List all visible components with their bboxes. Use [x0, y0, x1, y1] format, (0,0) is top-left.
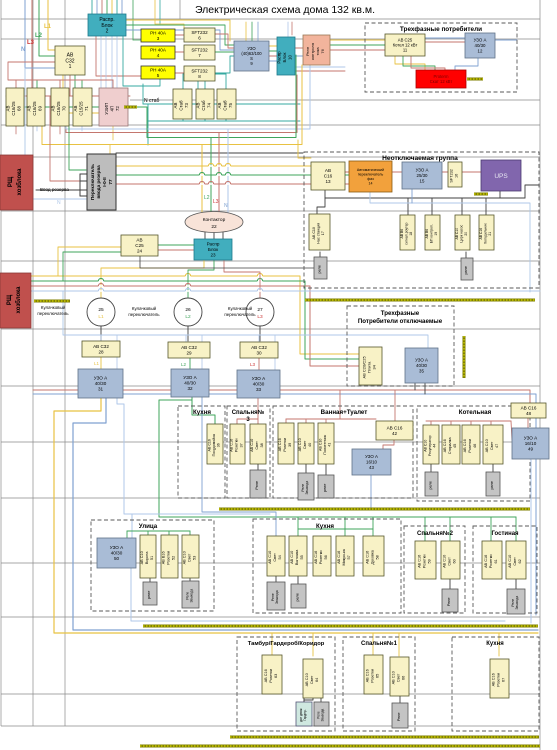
svg-text:УЗО А: УЗО А [416, 168, 429, 173]
breaker АВ С16 Посудомойка 36 [207, 424, 223, 464]
wire row stub down 4 [112, 126, 114, 140]
svg-text:Свет: Свет [273, 553, 277, 562]
wire row stub down 1 [36, 126, 38, 131]
svg-text:L3: L3 [257, 314, 263, 320]
svg-text:Кухня: Кухня [316, 523, 334, 530]
svg-text:АВ: АВ [217, 103, 222, 109]
svg-text:2: 2 [106, 29, 109, 35]
svg-text:РЩ: РЩ [7, 294, 13, 305]
svg-text:60: 60 [452, 559, 456, 563]
svg-text:55: 55 [300, 555, 304, 559]
svg-text:Розетки: Розетки [319, 551, 323, 565]
wire hop D2-8 [225, 183, 230, 185]
svg-text:Звыхода: Звыхода [190, 589, 194, 603]
PE bar near N стаб [124, 106, 137, 109]
svg-text:Звыхода: Звыхода [515, 596, 519, 610]
wire Распр23 down b [188, 260, 214, 281]
wire N feed [25, 0, 55, 68]
wire upper feeder #1 [251, 22, 253, 41]
svg-text:АВ С16: АВ С16 [207, 439, 211, 451]
svg-text:Полотенчик: Полотенчик [323, 435, 327, 455]
svg-text:Ворота: Ворота [145, 551, 149, 564]
wire 14 lightblue out [370, 192, 530, 292]
wire band2 green drop 1 [344, 517, 346, 536]
wire contactor-Распр23 2 [222, 232, 224, 239]
room box Спальня №2 [404, 526, 465, 613]
breaker АВ С25 24 [121, 235, 158, 256]
wire stab stub 1 [204, 74, 206, 89]
svg-text:Свет: Свет [490, 441, 494, 450]
wire band2 green drop 0 [297, 517, 299, 536]
wire N bus drop 1 [185, 335, 187, 342]
svg-text:70: 70 [61, 106, 66, 111]
svg-text:Свет: Свет [513, 557, 517, 566]
svg-text:АВ В6: АВ В6 [425, 229, 429, 239]
wire Котельная to УЗО49 [511, 421, 512, 440]
breaker АВ С16/25 69 [27, 88, 45, 126]
wire Улица drop 1 [168, 531, 170, 535]
breaker АВ С10 Свет 66 [390, 657, 409, 696]
svg-text:38: 38 [260, 443, 264, 447]
svg-text:реле: реле [323, 484, 327, 492]
svg-text:АВ: АВ [51, 106, 56, 112]
svg-text:52: 52 [171, 556, 175, 560]
relay under 17 [314, 257, 327, 279]
wire block2 out red [96, 36, 141, 76]
svg-text:АВ С16: АВ С16 [230, 439, 234, 452]
wire hop D2-3 [199, 174, 204, 176]
svg-text:АВ: АВ [196, 103, 201, 109]
svg-text:SFT232: SFT232 [191, 47, 208, 52]
wire band2 green drop b1 [449, 517, 451, 541]
svg-text:Блок: Блок [282, 53, 287, 63]
svg-text:17: 17 [321, 231, 325, 235]
wire Ванная drop 1 [305, 419, 307, 423]
svg-text:УЗО А: УЗО А [252, 376, 266, 381]
svg-text:67: 67 [501, 678, 505, 682]
svg-text:Посудомойка: Посудомойка [212, 434, 216, 456]
wire top feeder #0 [132, 0, 134, 40]
svg-text:34: 34 [372, 364, 377, 369]
wire bundle D lightblue [66, 65, 310, 129]
svg-text:переключатель: переключатель [37, 311, 69, 316]
relay under 60 [442, 589, 458, 612]
RCD УЗО А 40/30 33 [237, 370, 280, 398]
wire drop to block 2 #6 [121, 0, 123, 14]
breaker АВ С16 Розетки 46 [462, 425, 480, 464]
relay under 51 [143, 582, 157, 605]
svg-text:6: 6 [198, 35, 201, 40]
svg-text:68: 68 [16, 106, 21, 111]
current control relay 76 [303, 35, 330, 65]
wire F up to АВ24 y [58, 247, 121, 276]
relay Реле Звыхода under 62 [507, 589, 525, 614]
wire D left lb drop [65, 113, 67, 129]
wire top feeder green bend [133, 39, 141, 41]
wire 77 black [116, 152, 303, 154]
svg-text:Ввод резерва: Ввод резерва [40, 187, 69, 192]
svg-text:16/10: 16/10 [366, 460, 378, 465]
wire УЗО9-Распр10 0 [269, 45, 277, 47]
wire АВ С32 to УЗО 2 [189, 358, 191, 369]
svg-text:Гостиная: Гостиная [491, 531, 519, 537]
wire N bus drop 4 [201, 335, 203, 369]
wire АВ1 down [69, 75, 71, 96]
svg-text:Трехфазные потребители: Трехфазные потребители [400, 25, 482, 33]
svg-text:7: 7 [198, 53, 201, 58]
svg-text:30: 30 [256, 350, 262, 355]
wire F drop cam26 [187, 281, 189, 298]
distribution block Расп.Блок 2 [88, 14, 126, 36]
svg-text:Розетки: Розетки [371, 669, 375, 683]
svg-text:23: 23 [210, 253, 216, 258]
wire to boiler breaker red [330, 49, 385, 51]
breaker АВ С25 Котел 11 [385, 34, 425, 56]
svg-text:22: 22 [211, 224, 217, 230]
stabilizer SFT232 16 [448, 162, 462, 187]
RCD УЗО А 16/10 43 [352, 449, 391, 475]
svg-text:Нас станция: Нас станция [317, 223, 321, 244]
wire relay link 13 [303, 694, 305, 702]
svg-text:1: 1 [69, 64, 72, 70]
svg-text:35: 35 [419, 368, 424, 373]
wire Котельная drop 0 [430, 421, 432, 425]
svg-text:12: 12 [478, 48, 483, 53]
wire D left red drop [65, 96, 67, 133]
svg-text:Розетки: Розетки [235, 439, 239, 453]
wire 14 to 15 [392, 171, 402, 173]
svg-text:L3: L3 [213, 199, 219, 205]
wire block2 out lb1 [100, 36, 102, 88]
wire АВ С32 to УЗО 1 [100, 357, 102, 369]
wire L1 feed [48, 0, 55, 50]
wire Распр10-Реле76 1 [295, 55, 303, 57]
svg-text:Электрическая схема дома 132 к: Электрическая схема дома 132 кв.м. [195, 4, 375, 16]
svg-text:32: 32 [187, 386, 193, 391]
wire relay link 8 [189, 578, 191, 581]
wire bundle D red [66, 75, 297, 133]
breaker АВ С16 Розетки 56 [313, 536, 331, 576]
wire relay link 4 [325, 464, 327, 475]
wire УЗО9-Распр10 1 [269, 50, 277, 52]
svg-text:61: 61 [494, 559, 498, 563]
svg-text:С16/25: С16/25 [32, 101, 37, 116]
room box Котельная [417, 406, 530, 501]
breaker АВ С10 Вытяжка 55 [289, 536, 307, 576]
wire cam to АВ С32 0 [100, 326, 102, 341]
svg-text:Стиралка: Стиралка [448, 436, 452, 454]
wire УЗО12 to boiler [455, 58, 478, 70]
wire 42 to УЗО43 [383, 440, 394, 449]
svg-text:Розетки: Розетки [497, 673, 501, 687]
wire block2 out lb4 [116, 36, 118, 88]
breaker АВ С10 Цирк насос 20 [455, 215, 470, 250]
wire contactor-Распр23 0 [204, 232, 206, 239]
wire reserve vert [79, 174, 81, 196]
stabilizer SFT232 7 [184, 45, 215, 60]
svg-text:57: 57 [347, 555, 351, 559]
wire drop to block 2 #4 [111, 0, 113, 14]
svg-text:L3: L3 [27, 40, 35, 46]
wire АВ11 to boiler b [403, 56, 435, 70]
svg-text:С16/25: С16/25 [11, 101, 16, 116]
distribution block Распр Блок 10 [277, 37, 295, 75]
breaker АВ С10 Свет 62 [506, 541, 526, 579]
svg-text:16: 16 [454, 174, 458, 178]
RCD УЗО А 40/30 31 [78, 369, 123, 398]
cam switch 27 [246, 298, 274, 326]
wire 77 in green [69, 107, 86, 170]
PE bar bottom [230, 736, 539, 739]
svg-text:45: 45 [453, 444, 457, 448]
wire УЗО32 green kitchen1 [192, 397, 215, 424]
wire to boiler breaker green [330, 44, 385, 46]
svg-text:БП контрол.: БП контрол. [430, 224, 434, 243]
wire relay link 5 [430, 464, 432, 472]
wire block2 out teal [123, 36, 160, 86]
svg-text:Свет: Свет [448, 557, 452, 566]
wire to boiler breaker yellow [330, 39, 385, 41]
svg-text:УЗО А: УЗО А [183, 375, 197, 380]
svg-text:Кулачковый: Кулачковый [228, 306, 253, 311]
PE bar page bottom [140, 745, 540, 748]
wire N bus drop 2 [258, 335, 260, 342]
svg-text:АВ С16: АВ С16 [387, 425, 403, 430]
wire top feeder #1 [154, 0, 156, 24]
wire block2 right e [126, 20, 230, 41]
wire Улица drop 0 [147, 531, 149, 535]
wire bundle D green [147, 55, 296, 138]
wire 13 down to 17 [317, 190, 325, 214]
wire Распр10 out lb [295, 66, 345, 68]
svg-text:АВ С32: АВ С32 [251, 345, 267, 350]
wire upper feeder #0 [245, 22, 247, 41]
svg-text:Рекуператор: Рекуператор [428, 435, 432, 456]
wire hop D2-2 [225, 165, 230, 167]
svg-text:Скат 12 кВт: Скат 12 кВт [430, 79, 453, 84]
relay Реле Звыхода under 40 [298, 473, 314, 500]
breaker АВ С16 Микро-ка 57 [336, 536, 354, 576]
wire УЗО33 red [237, 398, 258, 424]
svg-text:25/30: 25/30 [417, 173, 429, 178]
svg-text:I-0-II: I-0-II [102, 177, 107, 186]
RCD УЗО А 40/30 35 [405, 348, 438, 383]
svg-text:С16: С16 [324, 174, 333, 179]
UPS [481, 160, 521, 191]
svg-text:Спальня№1: Спальня№1 [361, 640, 398, 647]
breaker АВ С16 42 [376, 421, 413, 440]
svg-text:L2: L2 [181, 362, 187, 367]
wire row stub up 1 [36, 80, 38, 88]
svg-text:UPS: UPS [494, 173, 508, 180]
svg-text:АВ С16: АВ С16 [479, 228, 483, 240]
svg-text:АВ: АВ [6, 106, 11, 112]
RCD УЗО А 40/30 50 [97, 538, 136, 568]
RCD УЗО А 25/30 15 [402, 162, 442, 189]
wire stab bottom bus [148, 120, 300, 122]
RCD УЗО А 40/30 32 [171, 369, 209, 397]
wire Распр23 down a [101, 260, 204, 276]
svg-text:29: 29 [186, 350, 192, 355]
svg-text:АВ С10: АВ С10 [392, 671, 396, 684]
svg-text:Звыхода: Звыхода [275, 590, 279, 604]
breaker АВ С16 Розетки 67 [490, 659, 509, 698]
wire relay link 7 [149, 578, 151, 582]
svg-text:49: 49 [528, 447, 534, 452]
breaker АВ С32 28 [82, 341, 120, 357]
svg-text:48: 48 [526, 411, 532, 416]
svg-text:31: 31 [98, 387, 104, 392]
wire Распр10 out red [295, 70, 345, 72]
breaker АВ Стаб 74 [196, 89, 214, 119]
wire hop F2 [98, 290, 103, 292]
svg-text:56: 56 [324, 555, 328, 559]
svg-text:АВ С16: АВ С16 [443, 439, 447, 452]
svg-text:18: 18 [409, 232, 413, 236]
svg-text:АВ С10: АВ С10 [290, 551, 294, 564]
wire F up to АВ24 g [63, 252, 121, 281]
svg-text:Духовка: Духовка [371, 549, 375, 564]
svg-text:36: 36 [217, 443, 221, 447]
svg-text:Стаб: Стаб [223, 100, 228, 111]
changeover switch Переключатель ввода резерва 77 [87, 154, 116, 210]
wire УЗО9-Распр10 2 [269, 55, 277, 57]
wire Улица УЗО50 top [126, 531, 128, 538]
wire hop F5 [257, 290, 262, 292]
breaker АВ С16 Розетки 65 [364, 655, 383, 694]
wire hop D2-6 [199, 183, 204, 185]
wire row stub down 2 [59, 126, 61, 134]
wire Распр10-Реле76 0 [295, 47, 303, 49]
svg-text:25: 25 [98, 307, 104, 313]
wire Ванная red feed [339, 390, 341, 419]
svg-text:Реле: Реле [447, 597, 451, 606]
svg-text:Розетки: Розетки [283, 438, 287, 452]
relay under 44 [425, 472, 438, 496]
svg-text:Распр: Распр [277, 51, 282, 64]
breaker АВ С10 Полотенчик 41 [318, 423, 334, 464]
wire E yellow L1 [201, 145, 203, 214]
room box Улица [91, 520, 214, 611]
PE bar left of cam switches [34, 300, 70, 303]
wire N bus drop 5 [274, 335, 276, 370]
svg-text:реле: реле [296, 593, 300, 601]
svg-text:АВ С10: АВ С10 [268, 551, 272, 564]
relay under 20 [461, 258, 473, 280]
svg-text:Розетки: Розетки [468, 439, 472, 453]
wire Ванная red top [286, 418, 376, 420]
wire Улица lightblue up [117, 398, 270, 514]
breaker АВ С32 1 [55, 46, 85, 75]
wire УЗО35 stub a [414, 383, 416, 390]
svg-text:АВ С16: АВ С16 [278, 438, 282, 451]
svg-text:11: 11 [403, 48, 408, 53]
contactor 22 [185, 212, 243, 233]
svg-text:Кулачковый: Кулачковый [41, 305, 66, 310]
group box Трехфазные потребители [365, 23, 517, 92]
wire group bus right up [525, 185, 539, 198]
wire hop F4 [185, 290, 190, 292]
svg-text:ввода резерва: ввода резерва [96, 165, 101, 199]
RCD УЗО А 40/30 12 [465, 33, 495, 58]
wire РН-SFT link 1 [175, 51, 184, 53]
svg-text:39: 39 [288, 443, 292, 447]
breaker АВ С10 Свет 64 [303, 659, 323, 698]
svg-text:20: 20 [464, 232, 468, 236]
wire Улица drop 2 [189, 531, 191, 535]
wire relay link 1 [465, 252, 467, 258]
svg-text:АВ С10: АВ С10 [312, 227, 316, 239]
wire Котельная drop 1 [450, 421, 452, 425]
breaker АВ Стаб 73 [173, 89, 192, 119]
wire hop D2-5 [225, 174, 230, 176]
svg-text:8: 8 [198, 74, 201, 79]
group box Неотключаемая группа [304, 152, 539, 288]
breaker АВ С16 Розетки 37 [230, 424, 245, 464]
wire stab stub down 0 [182, 119, 184, 121]
wire hop D2-0 [208, 165, 213, 167]
svg-text:40/30: 40/30 [95, 381, 107, 386]
svg-text:N: N [21, 47, 25, 53]
svg-text:Потребители отключаемые: Потребители отключаемые [358, 318, 443, 325]
wire АВ11 to boiler a [395, 56, 425, 70]
svg-text:71: 71 [84, 106, 89, 111]
svg-text:реле: реле [490, 481, 494, 489]
wire upper feeder #3 [287, 22, 289, 37]
svg-text:69: 69 [37, 106, 42, 111]
breaker АВ В6 БП контрол 19 [425, 215, 440, 250]
breaker АВ С10 Рекуператор 44 [423, 425, 439, 464]
PE bar below uninterruptible group [305, 299, 535, 302]
svg-text:УЗИП: УЗИП [104, 103, 109, 115]
wire Распр23 down c [224, 260, 260, 286]
wire E blue N [227, 129, 229, 213]
svg-text:АВ: АВ [173, 103, 178, 109]
svg-text:С25: С25 [135, 243, 144, 248]
svg-text:47: 47 [495, 444, 499, 448]
svg-text:63: 63 [274, 674, 278, 678]
stabilizer SFT232 6 [184, 28, 215, 42]
svg-text:N: N [224, 203, 228, 209]
svg-text:73: 73 [184, 103, 189, 108]
svg-text:N стаб: N стаб [144, 98, 160, 104]
svg-text:Реле: Реле [271, 593, 275, 601]
wire hop D2-1 [216, 165, 221, 167]
wire relay link 0 [319, 252, 321, 257]
boiler Proterm Скат 12 кВт [416, 70, 466, 88]
svg-text:Переключатель: Переключатель [90, 164, 95, 200]
wire hop F7 [257, 275, 262, 277]
wire bundle to 13 [298, 140, 311, 158]
room box Спальня №3 [227, 406, 270, 498]
wire hop F0 [98, 280, 103, 282]
svg-text:Реле: Реле [511, 599, 515, 607]
svg-text:40/30: 40/30 [253, 382, 265, 387]
wire top feeder #2 [159, 0, 161, 24]
svg-text:АВ С16: АВ С16 [484, 555, 488, 568]
svg-text:Свет: Свет [255, 441, 259, 450]
wire 48 to УЗО49 [527, 418, 529, 428]
svg-text:АВ С10: АВ С10 [318, 439, 322, 451]
breaker АВ С16/25 70 [51, 88, 69, 126]
wire 77 green [116, 174, 349, 176]
svg-text:28: 28 [98, 349, 104, 354]
group box Трехфазные Потребители отключаемые [347, 306, 454, 386]
wire АВ11-УЗО12 a [425, 37, 465, 39]
wire hop D2-4 [216, 174, 221, 176]
wire УЗО15 blue out [411, 189, 413, 203]
wire SFT16 to UPS [462, 171, 481, 173]
